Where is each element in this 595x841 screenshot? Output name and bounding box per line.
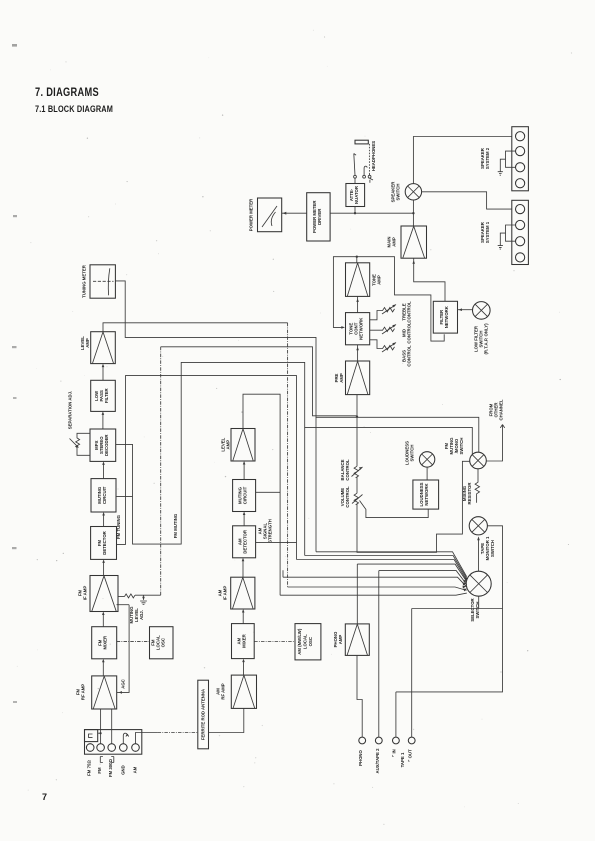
- svg-text:IF AMP: IF AMP: [223, 586, 228, 601]
- svg-text:LOCAL: LOCAL: [303, 634, 308, 649]
- svg-text:NUATOR: NUATOR: [354, 185, 359, 204]
- svg-text:DECODER: DECODER: [104, 434, 109, 456]
- svg-text:CHANNEL: CHANNEL: [499, 399, 504, 420]
- svg-text:STRENGTH: STRENGTH: [268, 519, 273, 543]
- svg-text:AUX/TAPE 2: AUX/TAPE 2: [375, 748, 380, 774]
- svg-text:MIXER: MIXER: [103, 635, 108, 650]
- svg-text:⌜ OUT: ⌜ OUT: [408, 749, 413, 762]
- svg-text:SEPARATION ADJ.: SEPARATION ADJ.: [68, 391, 73, 429]
- svg-text:AMP: AMP: [339, 373, 344, 383]
- svg-text:TUNING METER: TUNING METER: [82, 264, 87, 298]
- svg-text:CONTROL: CONTROL: [407, 322, 412, 344]
- svg-text:AMP: AMP: [392, 237, 397, 247]
- svg-text:CIRCUIT: CIRCUIT: [102, 486, 107, 504]
- svg-text:FERRITE ROD ANTENNA: FERRITE ROD ANTENNA: [201, 689, 206, 740]
- svg-text:NETWORK: NETWORK: [444, 305, 449, 328]
- svg-text:SWITCH: SWITCH: [410, 445, 415, 462]
- svg-text:NETWORK: NETWORK: [359, 317, 364, 340]
- svg-text:SWITCH: SWITCH: [459, 438, 464, 455]
- svg-text:FM 75Ω: FM 75Ω: [87, 760, 92, 776]
- svg-text:FILTER: FILTER: [104, 388, 109, 404]
- svg-text:RESISTOR: RESISTOR: [467, 482, 472, 505]
- svg-text:SWITCH: SWITCH: [475, 602, 480, 619]
- svg-text:DRIVER: DRIVER: [317, 208, 322, 225]
- svg-text:OSC: OSC: [308, 637, 313, 646]
- svg-text:7.1 BLOCK DIAGRAM: 7.1 BLOCK DIAGRAM: [35, 104, 113, 114]
- svg-text:CONTROL: CONTROL: [345, 486, 350, 508]
- svg-text:RF AMP: RF AMP: [221, 683, 226, 699]
- svg-text:AMP: AMP: [85, 338, 90, 348]
- svg-text:FM MUTING: FM MUTING: [173, 513, 178, 538]
- svg-text:OSC: OSC: [161, 638, 166, 647]
- svg-text:POWER METER: POWER METER: [249, 198, 254, 231]
- svg-text:SWITCH: SWITCH: [396, 184, 401, 201]
- svg-text:SYSTEM 2: SYSTEM 2: [485, 147, 490, 169]
- svg-text:(R.T.A.P. ONLY): (R.T.A.P. ONLY): [484, 323, 489, 355]
- svg-text:CONTROL: CONTROL: [345, 459, 350, 481]
- svg-text:IF AMP: IF AMP: [83, 586, 88, 601]
- svg-text:RF AMP: RF AMP: [81, 684, 86, 700]
- svg-text:⌜ IN: ⌜ IN: [392, 749, 397, 757]
- svg-text:FM 300Ω: FM 300Ω: [108, 758, 113, 777]
- svg-text:CONTROL: CONTROL: [407, 345, 412, 367]
- svg-text:PHONO: PHONO: [358, 749, 363, 765]
- svg-text:GND: GND: [120, 765, 125, 775]
- svg-text:SWITCH: SWITCH: [490, 540, 495, 557]
- svg-text:FM TUNING: FM TUNING: [116, 514, 121, 539]
- svg-text:AMP: AMP: [376, 275, 381, 285]
- svg-text:AM: AM: [133, 766, 138, 773]
- svg-text:AM (MW/LW): AM (MW/LW): [297, 628, 302, 655]
- svg-text:FM: FM: [97, 767, 102, 774]
- svg-text:NETWORK: NETWORK: [424, 483, 429, 506]
- svg-text:CIRCUIT: CIRCUIT: [243, 486, 248, 504]
- svg-text:7. DIAGRAMS: 7. DIAGRAMS: [35, 85, 99, 99]
- svg-text:TAPE 1: TAPE 1: [400, 752, 405, 767]
- svg-text:AMP: AMP: [338, 635, 343, 645]
- svg-text:DETECTOR: DETECTOR: [243, 529, 248, 553]
- svg-text:SYSTEM 1: SYSTEM 1: [485, 221, 490, 243]
- svg-text:7: 7: [42, 792, 47, 802]
- svg-text:HEADPHONES: HEADPHONES: [371, 141, 376, 171]
- svg-text:MIXER: MIXER: [242, 633, 247, 648]
- svg-text:AGC: AGC: [121, 679, 126, 689]
- svg-text:DETECTOR: DETECTOR: [102, 530, 107, 554]
- svg-text:AMP: AMP: [226, 440, 231, 450]
- svg-text:ADJ.: ADJ.: [139, 610, 144, 620]
- svg-text:CONTROL: CONTROL: [407, 301, 412, 323]
